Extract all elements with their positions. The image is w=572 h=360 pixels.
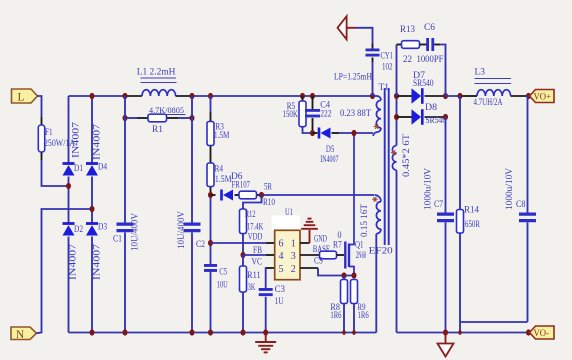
wire CY1 bottom xyxy=(372,58,374,63)
wire R9 pins xyxy=(353,304,355,333)
ground primary xyxy=(265,333,267,342)
aux phase star xyxy=(372,198,378,200)
resistor R1 xyxy=(148,114,167,122)
node VO+ xyxy=(526,93,531,99)
primary phase star xyxy=(374,126,380,128)
svg-text:C2: C2 xyxy=(196,239,205,250)
resistor R11 xyxy=(240,266,247,292)
wire R5 bottom xyxy=(303,127,313,133)
svg-text:1000u/10V: 1000u/10V xyxy=(504,168,515,210)
capacitor CY1 xyxy=(366,49,380,52)
svg-text:EF20: EF20 xyxy=(369,247,393,257)
svg-text:VDD: VDD xyxy=(248,231,263,242)
svg-text:R7: R7 xyxy=(333,239,342,250)
node rail D4 xyxy=(90,93,95,99)
wire CS pin xyxy=(300,267,318,269)
node rail C7 bottom xyxy=(443,329,448,335)
wire FB xyxy=(243,254,266,256)
wire R14 column xyxy=(459,96,461,210)
svg-text:R10: R10 xyxy=(263,197,275,208)
wire C3 bottom xyxy=(265,297,267,333)
svg-text:C8: C8 xyxy=(516,199,526,210)
resistor R12 xyxy=(240,209,247,234)
wire node195 segs xyxy=(211,194,216,196)
svg-text:SR540: SR540 xyxy=(413,78,434,89)
wire C8 column xyxy=(528,95,529,97)
svg-text:10U/400V: 10U/400V xyxy=(176,211,187,249)
resistor R14 xyxy=(457,210,464,234)
svg-text:2N60: 2N60 xyxy=(356,250,367,261)
wire top rail xyxy=(69,95,126,97)
svg-text:CS: CS xyxy=(314,255,323,266)
svg-text:GND: GND xyxy=(314,233,327,244)
wire C7 column xyxy=(445,117,447,213)
resistor R1 pins xyxy=(137,117,148,119)
wire D7 pins xyxy=(397,95,412,97)
wire R5 pin top xyxy=(302,96,304,101)
diode D5 xyxy=(318,128,321,139)
wire L1 pins xyxy=(125,95,142,97)
inductor L1 xyxy=(142,90,176,96)
capacitor C1 xyxy=(117,223,134,226)
wire R8 pins xyxy=(343,276,345,280)
svg-text:0.23 88T: 0.23 88T xyxy=(340,108,371,119)
svg-text:1R6: 1R6 xyxy=(330,310,341,321)
svg-text:L3: L3 xyxy=(475,67,486,78)
svg-text:150K: 150K xyxy=(283,109,298,120)
node rail C1 bottom xyxy=(123,329,128,335)
node rail C2 xyxy=(190,93,195,99)
svg-text:102: 102 xyxy=(382,62,393,73)
svg-text:3: 3 xyxy=(291,251,296,262)
svg-text:D8: D8 xyxy=(425,102,437,113)
svg-text:0.15 16T: 0.15 16T xyxy=(359,204,370,237)
wire L to F1 xyxy=(38,96,42,117)
node F1-D1 junction xyxy=(66,183,71,189)
capacitor C6 xyxy=(426,38,429,51)
svg-text:650R: 650R xyxy=(465,219,480,230)
svg-text:IN4007: IN4007 xyxy=(92,244,103,280)
resistor R8 xyxy=(341,280,348,304)
svg-text:C3: C3 xyxy=(275,284,286,295)
diode D8 xyxy=(412,109,422,125)
node R4 D6 xyxy=(208,192,213,198)
inductor L3 xyxy=(477,90,511,96)
svg-text:IN4007: IN4007 xyxy=(68,244,79,280)
node rail C3 bottom xyxy=(263,329,268,335)
svg-text:IN4007: IN4007 xyxy=(320,154,338,165)
wire BASE pin xyxy=(300,254,320,256)
power flag N xyxy=(11,327,37,340)
node rail R9 bottom xyxy=(352,330,356,335)
capacitor C2 xyxy=(184,223,201,226)
op-amp U1 body xyxy=(275,230,300,279)
wire F1 to bridge xyxy=(42,160,69,186)
node sec D8 xyxy=(394,114,399,120)
svg-text:R12: R12 xyxy=(245,209,256,220)
node rail R11 bottom xyxy=(241,329,246,335)
svg-text:FB: FB xyxy=(253,245,262,256)
svg-text:3K: 3K xyxy=(248,282,256,293)
wire bottom rail right xyxy=(397,332,529,334)
wire C1 column xyxy=(124,96,126,223)
svg-text:C5: C5 xyxy=(219,266,227,277)
wire R11 pins xyxy=(242,255,244,266)
resistor R13 xyxy=(402,41,420,49)
svg-text:L1 2.2mH: L1 2.2mH xyxy=(137,67,176,78)
transformer core xyxy=(384,88,386,245)
wire GND pin xyxy=(300,242,310,244)
svg-text:0.45*2 6T: 0.45*2 6T xyxy=(401,134,412,177)
capacitor C5 xyxy=(204,264,217,267)
transformer secondary winding xyxy=(392,146,396,171)
transformer primary winding xyxy=(373,96,382,100)
node sec top D7 xyxy=(394,93,399,99)
svg-text:R14: R14 xyxy=(464,205,479,216)
svg-text:1.5M: 1.5M xyxy=(215,174,232,185)
node R9 top xyxy=(352,272,357,278)
svg-text:5: 5 xyxy=(279,264,284,275)
capacitor C3 xyxy=(259,288,273,291)
power flag VO- xyxy=(530,326,555,339)
wire bottom rail left xyxy=(69,332,377,334)
wire R13-C6 xyxy=(420,44,427,46)
node rail C4 xyxy=(310,93,315,99)
capacitor C8 xyxy=(519,213,536,216)
diode D7 xyxy=(412,88,422,104)
svg-text:VO-: VO- xyxy=(534,328,550,338)
secondary phase star xyxy=(391,152,397,154)
power flag L xyxy=(12,89,38,103)
node VO- tip xyxy=(526,329,531,335)
wire VC xyxy=(266,267,275,269)
svg-text:1: 1 xyxy=(291,238,296,249)
node D7 cathode xyxy=(443,93,448,99)
svg-text:10U: 10U xyxy=(217,279,228,290)
wire arrow to CY1 xyxy=(356,28,373,44)
svg-text:1000PF: 1000PF xyxy=(417,54,444,65)
diode D6 xyxy=(220,190,223,201)
resistor R1 branch wires xyxy=(125,117,137,119)
wire D1 column xyxy=(68,96,70,163)
ground output xyxy=(445,333,447,344)
wire N to bridge xyxy=(37,209,93,333)
fuse F1 xyxy=(38,125,44,152)
wire R7 to gate xyxy=(337,254,345,256)
node R1 left xyxy=(123,115,128,121)
wire R3 R4 column xyxy=(210,96,212,112)
svg-text:1U: 1U xyxy=(275,296,284,307)
node N-D4 junction xyxy=(90,206,95,212)
resistor R5 xyxy=(299,101,306,127)
svg-text:D2: D2 xyxy=(74,224,83,235)
svg-text:IN4007: IN4007 xyxy=(71,122,82,158)
transistor Q1 xyxy=(344,242,346,269)
svg-text:D1: D1 xyxy=(74,163,83,174)
transformer aux winding xyxy=(375,195,382,202)
node R1 right xyxy=(190,115,195,121)
node D8 cathode xyxy=(443,114,448,120)
node rail C1 xyxy=(123,93,128,99)
svg-text:VC: VC xyxy=(252,257,263,268)
svg-text:4: 4 xyxy=(279,251,284,262)
node rail T1 primary xyxy=(370,93,375,99)
wire D5 pins xyxy=(313,132,318,134)
wire D4 column xyxy=(91,96,93,163)
wire R13 left xyxy=(396,45,398,97)
svg-text:N: N xyxy=(16,329,25,341)
capacitor C7 xyxy=(437,213,454,216)
node rail R3 xyxy=(208,93,213,99)
svg-text:FR107: FR107 xyxy=(232,180,251,191)
node drain xyxy=(352,130,357,136)
node snubber xyxy=(310,130,315,136)
svg-text:L: L xyxy=(17,92,24,104)
svg-text:D3: D3 xyxy=(98,222,107,233)
wire output rail xyxy=(446,95,463,97)
svg-text:222: 222 xyxy=(320,108,331,119)
resistor R9 xyxy=(351,280,358,304)
node R10 right xyxy=(259,192,264,198)
wire C2 column xyxy=(191,96,193,223)
svg-text:6: 6 xyxy=(279,238,284,249)
svg-text:Q1: Q1 xyxy=(355,240,364,251)
white patch xyxy=(272,216,301,231)
diode D1 xyxy=(63,162,75,165)
node FB xyxy=(241,252,246,258)
svg-text:CY1: CY1 xyxy=(381,51,394,62)
resistor R4 xyxy=(207,163,214,187)
svg-text:2: 2 xyxy=(291,264,296,275)
svg-text:U1: U1 xyxy=(285,207,293,218)
resistor R7 xyxy=(320,251,337,259)
node rail R5 xyxy=(300,93,305,99)
node rail R14 bottom xyxy=(458,330,461,335)
svg-text:R1: R1 xyxy=(152,124,163,135)
wire C4 bottom xyxy=(312,118,314,133)
wire D8 pins xyxy=(397,116,412,118)
svg-text:F1: F1 xyxy=(45,127,53,138)
off-page arrow xyxy=(338,16,347,39)
wire C6 right xyxy=(434,44,440,46)
wire R12 to FB xyxy=(242,234,244,256)
node rail R8 bottom xyxy=(342,330,346,335)
svg-text:C6: C6 xyxy=(424,22,435,33)
svg-text:22: 22 xyxy=(403,54,412,65)
svg-text:1.5M: 1.5M xyxy=(214,130,230,141)
svg-text:5R: 5R xyxy=(264,182,272,193)
svg-text:4.7K/0805: 4.7K/0805 xyxy=(149,105,184,115)
wire D5 to primary xyxy=(339,132,373,134)
svg-text:LP=1.25mH: LP=1.25mH xyxy=(334,72,372,83)
node rail C5 bottom xyxy=(208,329,213,335)
node R8 top xyxy=(342,272,347,278)
wire CS to sense xyxy=(318,268,354,276)
node rail C2 bottom xyxy=(190,329,195,335)
wire R10 to R12 xyxy=(243,195,262,209)
resistor R10 xyxy=(239,191,257,199)
diode D2 xyxy=(63,222,75,225)
svg-text:IN4007: IN4007 xyxy=(92,124,103,160)
svg-text:R4: R4 xyxy=(215,164,224,175)
svg-text:1R6: 1R6 xyxy=(358,310,369,321)
wire C4 pin top xyxy=(312,96,314,109)
svg-text:R13: R13 xyxy=(400,24,415,35)
fuse F1 pins xyxy=(41,117,43,125)
node VDD column xyxy=(208,240,213,246)
wire VDD xyxy=(211,242,267,244)
diode D3 xyxy=(86,222,98,225)
node R14 top xyxy=(458,93,463,99)
power flag VO+ xyxy=(530,90,555,103)
svg-text:C1: C1 xyxy=(113,234,122,245)
capacitor C4 xyxy=(305,109,320,112)
svg-text:D4: D4 xyxy=(98,162,107,173)
svg-text:1000u/10V: 1000u/10V xyxy=(423,168,434,210)
wire CY1 pin top xyxy=(372,44,374,50)
svg-text:VO+: VO+ xyxy=(534,92,552,102)
node rail D3 bottom xyxy=(90,329,95,335)
resistor R3 xyxy=(207,122,214,146)
svg-text:R11: R11 xyxy=(247,270,261,281)
svg-text:10U/400V: 10U/400V xyxy=(130,213,141,251)
svg-text:C7: C7 xyxy=(434,199,443,210)
diode D4 xyxy=(86,162,98,165)
ground U1 xyxy=(301,228,318,230)
svg-text:4.7UH/2A: 4.7UH/2A xyxy=(474,97,503,108)
